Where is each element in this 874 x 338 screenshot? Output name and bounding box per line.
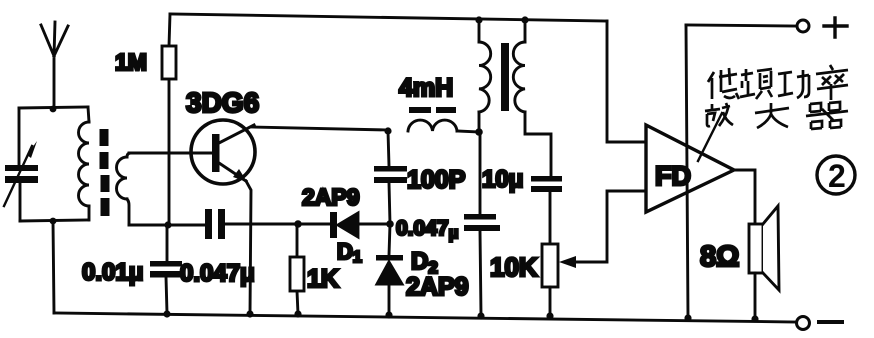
wire FD power vertical xyxy=(686,25,688,318)
node detector junction xyxy=(386,220,394,228)
svg-text:2: 2 xyxy=(828,158,846,194)
label plus xyxy=(824,18,847,37)
char fang (set) xyxy=(705,103,733,126)
node dots on ground rail xyxy=(163,310,758,322)
resistor R1 1M xyxy=(162,14,176,225)
node antenna-tank junction xyxy=(50,106,57,113)
svg-text:2AP9: 2AP9 xyxy=(406,273,469,301)
svg-text:1K: 1K xyxy=(307,265,339,293)
transformer T2 primary xyxy=(479,20,491,132)
svg-text:0.01μ: 0.01μ xyxy=(82,259,143,286)
capacitor C5 0.047u bypass xyxy=(464,132,500,315)
svg-text:0.047μ: 0.047μ xyxy=(180,260,255,287)
diode D1 2AP9 xyxy=(298,212,390,238)
capacitor C3 0.047u coupling xyxy=(205,209,298,239)
wire positive rail xyxy=(686,25,796,26)
inductor L1 primary winding xyxy=(79,107,90,220)
wire FD output to speaker xyxy=(734,170,755,224)
node 4mH / transformer junction xyxy=(475,128,483,136)
label minus xyxy=(819,320,842,324)
node 1K junction xyxy=(294,220,302,228)
inductor L3 4mH xyxy=(408,120,479,132)
wire ground rail xyxy=(54,313,796,322)
char gong (merit) xyxy=(778,70,809,98)
svg-text:10K: 10K xyxy=(490,252,538,282)
core T2 xyxy=(501,43,509,111)
svg-text:100P: 100P xyxy=(407,166,465,194)
core L1-L2 dashed xyxy=(104,129,105,216)
label low-frequency power amplifier (hand-drawn CJK) xyxy=(705,65,848,129)
resistor R2 1K xyxy=(290,224,304,314)
svg-text:2AP9: 2AP9 xyxy=(302,184,360,210)
speaker LS 8ohm xyxy=(749,206,779,319)
wire top rail corner to FD upper input xyxy=(607,21,646,142)
svg-text:8Ω: 8Ω xyxy=(700,241,739,273)
op-amp U1 FD xyxy=(646,125,734,212)
wire tank bottom xyxy=(20,220,88,221)
label circled 2 xyxy=(817,156,855,194)
node collector / 100P tap xyxy=(384,127,391,134)
char da (big) xyxy=(755,103,789,128)
char lv (rate) xyxy=(816,65,848,100)
svg-text:10μ: 10μ xyxy=(482,166,523,193)
potentiometer R3 10K xyxy=(542,191,646,315)
svg-text:3DG6: 3DG6 xyxy=(186,87,259,118)
wire emitter to ground xyxy=(246,181,251,314)
wire tank to ground rail xyxy=(53,221,54,313)
terminal negative xyxy=(797,317,810,330)
capacitor C2 0.01u xyxy=(150,225,182,313)
char di (low) xyxy=(708,68,739,99)
wire top rail xyxy=(170,14,607,21)
inductor L2 secondary winding xyxy=(117,153,131,225)
node bias junction xyxy=(164,221,171,228)
wire secondary top to base xyxy=(129,152,214,155)
diode D2 2AP9 xyxy=(376,224,403,314)
capacitor C6 10u xyxy=(531,176,562,244)
node tank bottom junction xyxy=(50,218,57,225)
antenna xyxy=(41,22,68,109)
svg-text:1M: 1M xyxy=(115,49,147,75)
char qi (device) xyxy=(806,102,848,129)
leader line label to FD xyxy=(698,113,722,161)
transistor Q1 3DG6 xyxy=(191,120,255,184)
transformer T2 secondary xyxy=(513,20,551,176)
node T2 primary top xyxy=(475,16,482,23)
capacitor C-var tuning xyxy=(4,108,38,221)
wire secondary bottom xyxy=(129,224,205,227)
capacitor C4 100P xyxy=(374,131,407,224)
terminal positive xyxy=(797,20,809,32)
char pin (frequency) xyxy=(740,69,772,99)
wire collector line xyxy=(252,127,388,130)
node T2 secondary top xyxy=(521,16,528,23)
svg-text:4mH: 4mH xyxy=(399,74,453,102)
core 4mH dashes xyxy=(409,107,456,113)
wire tank top xyxy=(19,107,88,108)
